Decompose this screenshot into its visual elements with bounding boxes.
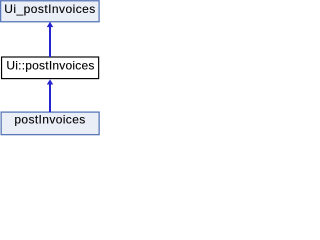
svg-text:Ui_postInvoices: Ui_postInvoices [4,2,95,16]
svg-text:postInvoices: postInvoices [14,113,85,127]
svg-text:Ui::postInvoices: Ui::postInvoices [6,58,94,72]
